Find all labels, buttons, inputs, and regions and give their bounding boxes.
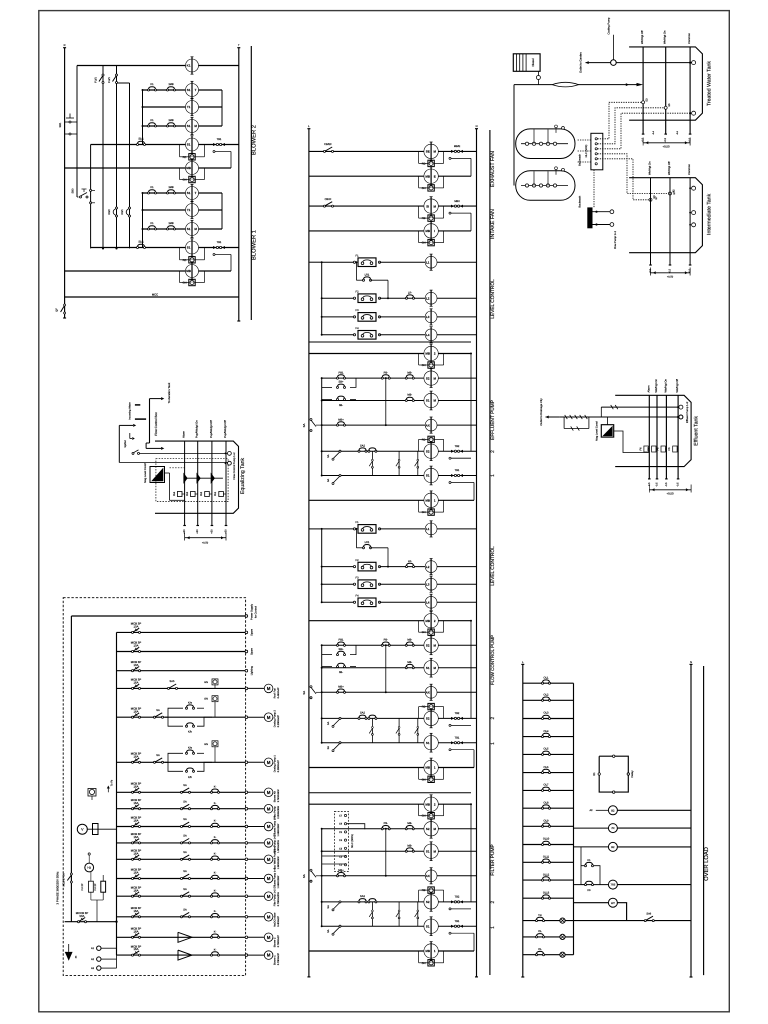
svg-text:S1: S1 xyxy=(426,924,430,928)
svg-text:TB1: TB1 xyxy=(455,920,460,923)
svg-text:SA: SA xyxy=(302,691,306,695)
svg-text:FU 2P: FU 2P xyxy=(81,883,84,890)
svg-text:Alr: Alr xyxy=(589,809,592,812)
svg-text:S1: S1 xyxy=(426,666,430,670)
svg-text:GN: GN xyxy=(183,179,187,182)
svg-text:1: 1 xyxy=(490,926,496,929)
svg-text:2: 2 xyxy=(490,717,496,720)
svg-text:LR-: LR- xyxy=(408,291,412,294)
svg-text:Cooling Pump: Cooling Pump xyxy=(608,17,611,34)
svg-text:Intermediate Tank: Intermediate Tank xyxy=(706,193,712,235)
svg-text:K/a: K/a xyxy=(188,701,192,704)
svg-text:K1: K1 xyxy=(587,859,591,862)
svg-text:for Control: for Control xyxy=(255,606,258,619)
svg-text:E7': E7' xyxy=(673,190,676,194)
svg-text:Pup/Wtr/gd On: Pup/Wtr/gd On xyxy=(196,420,199,438)
svg-text:S2: S2 xyxy=(426,717,430,721)
svg-text:K-: K- xyxy=(214,836,217,839)
svg-text:16A: 16A xyxy=(134,784,139,788)
svg-text:M: M xyxy=(267,876,271,881)
svg-text:+0.50: +0.50 xyxy=(662,145,670,149)
svg-text:SA: SA xyxy=(156,754,160,757)
svg-text:GN: GN xyxy=(422,187,426,190)
svg-text:SA: SA xyxy=(302,874,306,878)
svg-text:1MB: 1MB xyxy=(168,186,174,189)
svg-text:Equalizing Tank: Equalizing Tank xyxy=(240,457,246,494)
svg-text:L3: L3 xyxy=(426,315,430,319)
svg-text:TB1: TB1 xyxy=(217,138,222,141)
svg-text:Sp/5M: Sp/5M xyxy=(124,440,127,447)
svg-text:Spare: Spare xyxy=(251,647,254,654)
svg-text:S1: S1 xyxy=(187,191,191,195)
svg-text:M: M xyxy=(267,790,271,795)
svg-text:Fb1: Fb1 xyxy=(214,491,217,496)
svg-text:10A: 10A xyxy=(134,625,139,629)
svg-text:GN: GN xyxy=(422,962,426,965)
svg-text:OL4: OL4 xyxy=(544,730,549,733)
svg-text:1.5kWx2kW: 1.5kWx2kW xyxy=(277,839,280,852)
svg-text:K1: K1 xyxy=(150,186,154,189)
svg-text:GN: GN xyxy=(183,282,187,285)
svg-text:RD: RD xyxy=(422,162,426,165)
svg-text:LR1: LR1 xyxy=(365,541,370,544)
svg-text:Treated Water Tank: Treated Water Tank xyxy=(706,61,712,106)
svg-text:K/b: K/b xyxy=(188,776,192,779)
svg-text:Common: Common xyxy=(688,164,691,175)
svg-text:0.75kWx2P: 0.75kWx2P xyxy=(277,952,280,965)
svg-text:Spare: Spare xyxy=(251,628,254,635)
svg-text:S1: S1 xyxy=(187,124,191,128)
svg-text:GN: GN xyxy=(422,778,426,781)
svg-text:Alarm: Alarm xyxy=(647,385,650,393)
svg-text:Alarm: Alarm xyxy=(183,430,186,438)
svg-text:MB: MB xyxy=(425,802,430,806)
svg-text:16A: 16A xyxy=(134,947,139,951)
svg-text:Wtr/Hgt Off: Wtr/Hgt Off xyxy=(641,30,644,44)
svg-text:Wtr/Hgt On: Wtr/Hgt On xyxy=(664,30,667,44)
svg-text:M: M xyxy=(267,760,271,765)
svg-text:SA: SA xyxy=(183,870,187,873)
svg-text:SA: SA xyxy=(302,424,306,428)
svg-text:PB-: PB- xyxy=(384,639,388,642)
svg-text:PB-: PB- xyxy=(384,822,388,825)
svg-text:-0.5: -0.5 xyxy=(677,482,680,487)
svg-text:BLOWER 2: BLOWER 2 xyxy=(251,125,258,155)
svg-text:SB0: SB0 xyxy=(72,188,75,193)
svg-text:OVER LOAD: OVER LOAD xyxy=(703,847,710,881)
svg-text:SI: SI xyxy=(426,204,429,208)
svg-text:TB2: TB2 xyxy=(455,896,460,899)
svg-text:S1: S1 xyxy=(426,399,430,403)
svg-text:Flow Control Box: Flow Control Box xyxy=(154,412,158,436)
svg-text:OL8: OL8 xyxy=(544,801,549,804)
svg-text:-0.5: -0.5 xyxy=(656,482,659,487)
svg-text:B2: B2 xyxy=(611,846,615,849)
svg-text:K1: K1 xyxy=(150,119,154,122)
svg-text:E: E xyxy=(75,955,77,959)
svg-text:RD: RD xyxy=(422,706,426,709)
svg-text:K-: K- xyxy=(214,931,217,934)
svg-text:K6: K6 xyxy=(587,889,591,892)
svg-text:RD: RD xyxy=(183,259,187,262)
svg-text:Backwash: Backwash xyxy=(579,153,582,165)
svg-text:RD: RD xyxy=(183,156,187,159)
svg-text:N: N xyxy=(690,661,692,664)
svg-text:Fb4: Fb4 xyxy=(173,491,176,496)
svg-text:MB/I: MB/I xyxy=(454,200,460,203)
svg-text:L4: L4 xyxy=(426,601,430,605)
svg-text:SA: SA xyxy=(327,929,330,933)
svg-text:Wtr/Hgt On: Wtr/Hgt On xyxy=(649,161,652,175)
svg-text:Mag Level Contrl: Mag Level Contrl xyxy=(144,463,147,483)
svg-text:16A: 16A xyxy=(134,754,139,758)
svg-text:CB/IF: CB/IF xyxy=(325,198,332,201)
svg-text:PB1: PB1 xyxy=(339,371,344,374)
svg-text:LEVEL CONTROL: LEVEL CONTROL xyxy=(490,279,496,319)
svg-text:Backwash: Backwash xyxy=(579,195,582,207)
svg-text:PB1: PB1 xyxy=(339,639,344,642)
svg-text:0.25kWx2P: 0.25kWx2P xyxy=(277,760,280,773)
svg-text:16A: 16A xyxy=(134,909,139,913)
svg-text:-0.5: -0.5 xyxy=(664,137,667,142)
svg-text:M: M xyxy=(267,715,271,720)
svg-text:SA: SA xyxy=(183,800,187,803)
svg-text:EXHAUST FAN: EXHAUST FAN xyxy=(490,151,496,187)
svg-text:MB: MB xyxy=(425,499,430,503)
svg-text:50A: 50A xyxy=(80,914,85,918)
svg-text:GN: GN xyxy=(422,511,426,514)
svg-text:Effluent Pump 1+2: Effluent Pump 1+2 xyxy=(686,401,689,423)
svg-text:OL13: OL13 xyxy=(543,891,550,894)
svg-text:SA: SA xyxy=(327,721,330,725)
svg-text:E: E xyxy=(434,174,436,178)
svg-text:0.4kWx2P: 0.4kWx2P xyxy=(277,916,280,927)
svg-text:3.7kWx3kW: 3.7kWx3kW xyxy=(277,789,280,802)
svg-text:7R: 7R xyxy=(611,827,614,830)
svg-text:L1: L1 xyxy=(426,260,430,264)
svg-text:Delay: Delay xyxy=(631,770,634,778)
svg-text:OL5: OL5 xyxy=(544,748,549,751)
svg-text:10A: 10A xyxy=(134,663,139,667)
svg-text:MB: MB xyxy=(425,766,430,770)
svg-text:GN: GN xyxy=(422,242,426,245)
svg-text:Effluent Tank: Effluent Tank xyxy=(694,416,700,446)
svg-text:16A: 16A xyxy=(134,871,139,875)
svg-text:Diesel: Diesel xyxy=(531,58,535,66)
svg-text:SB+: SB+ xyxy=(339,381,344,384)
svg-text:0.25kWx2P: 0.25kWx2P xyxy=(277,715,280,728)
svg-text:Hz: Hz xyxy=(87,866,91,870)
svg-text:T: T xyxy=(195,88,197,92)
svg-text:Outlet to Garden: Outlet to Garden xyxy=(579,52,583,73)
svg-text:NLC (NRS): NLC (NRS) xyxy=(351,834,354,848)
svg-text:M: M xyxy=(267,914,271,919)
svg-text:GN: GN xyxy=(422,631,426,634)
svg-text:RD: RD xyxy=(422,889,426,892)
svg-text:S2: S2 xyxy=(426,644,430,648)
svg-text:SE: SE xyxy=(426,150,430,154)
svg-text:MB/E: MB/E xyxy=(454,145,461,148)
svg-text:2.2kWx3kW: 2.2kWx3kW xyxy=(277,805,280,818)
svg-text:SA: SA xyxy=(183,835,187,838)
svg-text:MB-: MB- xyxy=(407,822,412,825)
svg-text:OL12: OL12 xyxy=(543,873,550,876)
svg-text:LEVEL CONTROL: LEVEL CONTROL xyxy=(490,546,496,586)
svg-text:N: N xyxy=(476,125,478,128)
svg-text:M: M xyxy=(267,824,271,829)
svg-text:AX: AX xyxy=(426,423,430,427)
svg-text:SA: SA xyxy=(156,709,160,712)
svg-text:2: 2 xyxy=(490,450,496,453)
svg-text:1MB: 1MB xyxy=(168,222,174,225)
svg-text:S1: S1 xyxy=(426,741,430,745)
svg-text:Incoming Water: Incoming Water xyxy=(129,402,132,420)
svg-text:K1: K1 xyxy=(150,83,154,86)
svg-text:SA6: SA6 xyxy=(646,912,651,915)
svg-text:SA2: SA2 xyxy=(360,444,365,447)
svg-text:L2: L2 xyxy=(426,565,430,569)
svg-text:0.75kWx2kW: 0.75kWx2kW xyxy=(277,891,280,906)
svg-text:MB-: MB- xyxy=(407,661,412,664)
svg-text:K/b: K/b xyxy=(188,731,192,734)
svg-text:1.5kWx2kW: 1.5kWx2kW xyxy=(277,856,280,869)
svg-text:OL: OL xyxy=(538,948,542,951)
svg-text:7R5: 7R5 xyxy=(611,884,616,887)
svg-text:K0/2: K0/2 xyxy=(108,209,111,215)
svg-text:TB2: TB2 xyxy=(455,445,460,448)
svg-text:SA: SA xyxy=(327,479,330,483)
svg-text:K-: K- xyxy=(214,872,217,875)
svg-text:B2: B2 xyxy=(611,809,615,812)
svg-text:L3: L3 xyxy=(426,582,430,586)
svg-text:MB+: MB+ xyxy=(338,686,344,689)
svg-text:GN: GN xyxy=(422,364,426,367)
svg-text:K1: K1 xyxy=(187,64,191,68)
svg-text:BLOWER 1: BLOWER 1 xyxy=(251,230,258,260)
svg-text:SA5: SA5 xyxy=(170,680,175,683)
svg-text:K-: K- xyxy=(214,802,217,805)
svg-text:S1: S1 xyxy=(187,143,191,147)
svg-text:Power Supply: Power Supply xyxy=(251,603,254,620)
svg-text:OL: OL xyxy=(538,930,542,933)
svg-text:OL2: OL2 xyxy=(544,694,549,697)
svg-text:+50: +50 xyxy=(196,529,199,534)
svg-text:K-: K- xyxy=(214,910,217,913)
svg-text:T1: T1 xyxy=(187,208,191,212)
svg-text:2: 2 xyxy=(490,900,496,903)
svg-text:L4: L4 xyxy=(426,333,430,337)
svg-text:INTAKE FAN: INTAKE FAN xyxy=(490,209,496,239)
svg-text:FU 2P: FU 2P xyxy=(94,883,97,890)
svg-text:AX: AX xyxy=(426,691,430,695)
svg-text:SB1: SB1 xyxy=(59,122,62,127)
svg-text:RD: RD xyxy=(422,217,426,220)
svg-text:S1: S1 xyxy=(426,474,430,478)
svg-text:S2: S2 xyxy=(426,376,430,380)
svg-text:W7: W7 xyxy=(611,902,615,905)
svg-text:16A: 16A xyxy=(134,801,139,805)
svg-text:MB+: MB+ xyxy=(338,418,344,421)
svg-text:T: T xyxy=(195,191,197,195)
svg-text:MB-: MB- xyxy=(407,394,412,397)
svg-text:+0.50: +0.50 xyxy=(667,276,674,279)
svg-text:0.75kWx2P: 0.75kWx2P xyxy=(277,935,280,948)
svg-text:SA: SA xyxy=(183,784,187,787)
svg-text:1: 1 xyxy=(490,742,496,745)
svg-text:K/a: K/a xyxy=(188,747,192,750)
svg-text:M: M xyxy=(267,806,271,811)
svg-text:S1: S1 xyxy=(187,88,191,92)
svg-text:M: M xyxy=(267,953,271,958)
svg-text:T1: T1 xyxy=(187,105,191,109)
svg-text:M: M xyxy=(267,935,271,940)
svg-text:SB+: SB+ xyxy=(339,648,344,651)
svg-text:OL9: OL9 xyxy=(544,820,549,823)
svg-text:FLOW CONTROL PUMP: FLOW CONTROL PUMP xyxy=(490,635,495,685)
svg-text:Lighting: Lighting xyxy=(251,666,254,676)
svg-text:M: M xyxy=(267,857,271,862)
svg-text:Flow Pump 1+2: Flow Pump 1+2 xyxy=(614,230,617,249)
svg-text:+50: +50 xyxy=(210,529,213,534)
svg-text:TB2: TB2 xyxy=(455,712,460,715)
svg-text:TB1: TB1 xyxy=(217,241,222,244)
svg-text:SA: SA xyxy=(183,909,187,912)
svg-text:SA: SA xyxy=(183,888,187,891)
svg-text:Fb3: Fb3 xyxy=(186,491,189,496)
svg-text:+0.50: +0.50 xyxy=(202,542,209,545)
svg-text:10A: 10A xyxy=(134,644,139,648)
svg-text:MB-: MB- xyxy=(407,844,412,847)
svg-text:CB/EF: CB/EF xyxy=(324,143,332,146)
svg-text:S2: S2 xyxy=(426,827,430,831)
svg-text:RD: RD xyxy=(422,438,426,441)
svg-text:16A: 16A xyxy=(134,835,139,839)
svg-text:SA2: SA2 xyxy=(360,712,365,715)
svg-text:S1: S1 xyxy=(187,227,191,231)
svg-text:OL10: OL10 xyxy=(543,838,550,841)
svg-text:MB-: MB- xyxy=(407,639,412,642)
svg-text:SA: SA xyxy=(183,851,187,854)
svg-text:Wtr/Hgt On: Wtr/Hgt On xyxy=(655,379,658,393)
svg-text:L2: L2 xyxy=(426,296,430,300)
svg-text:SA: SA xyxy=(327,454,330,458)
svg-text:16A: 16A xyxy=(134,929,139,933)
svg-text:GN: GN xyxy=(204,698,208,701)
svg-text:LR-: LR- xyxy=(408,560,412,563)
svg-text:LR1: LR1 xyxy=(365,273,370,276)
svg-text:3 PHASE 380/220V 50Hz: 3 PHASE 380/220V 50Hz xyxy=(56,871,60,904)
svg-text:K-: K- xyxy=(214,948,217,951)
svg-text:K1: K1 xyxy=(150,222,154,225)
svg-text:TB1: TB1 xyxy=(455,469,460,472)
svg-text:FILTER PUMP: FILTER PUMP xyxy=(490,844,496,875)
svg-text:Wtr/Hgt On: Wtr/Hgt On xyxy=(664,379,667,393)
svg-text:OL11: OL11 xyxy=(543,856,550,859)
svg-text:K0/1: K0/1 xyxy=(121,209,124,215)
svg-text:L1: L1 xyxy=(426,527,430,531)
svg-text:MB-: MB- xyxy=(407,371,412,374)
svg-text:OL3: OL3 xyxy=(544,712,549,715)
svg-text:S1/1: S1/1 xyxy=(138,241,144,244)
svg-text:TB1: TB1 xyxy=(455,736,460,739)
svg-text:SB-: SB- xyxy=(339,404,343,407)
svg-text:16A: 16A xyxy=(134,709,139,713)
svg-text:1MB: 1MB xyxy=(168,119,174,122)
svg-text:M: M xyxy=(267,841,271,846)
svg-text:MB: MB xyxy=(425,619,430,623)
svg-text:M: M xyxy=(267,686,271,691)
svg-text:MB: MB xyxy=(425,949,430,953)
svg-text:-0.5: -0.5 xyxy=(665,482,668,487)
svg-text:To Aeration Tank: To Aeration Tank xyxy=(167,382,171,403)
svg-text:S2: S2 xyxy=(426,900,430,904)
svg-text:Mag Level Contrl: Mag Level Contrl xyxy=(596,421,599,441)
svg-text:16A: 16A xyxy=(134,681,139,685)
svg-text:Fb2: Fb2 xyxy=(200,491,203,496)
svg-text:OL1: OL1 xyxy=(544,676,549,679)
svg-text:R: R xyxy=(64,44,66,47)
svg-text:EFFLUENT PUMP: EFFLUENT PUMP xyxy=(490,400,496,440)
svg-text:MB: MB xyxy=(425,352,430,356)
svg-text:S1: S1 xyxy=(426,849,430,853)
svg-text:M: M xyxy=(267,894,271,899)
svg-text:SA: SA xyxy=(327,905,330,909)
svg-text:K-: K- xyxy=(214,786,217,789)
svg-text:SA: SA xyxy=(183,818,187,821)
svg-text:GN: GN xyxy=(204,743,208,746)
svg-text:16A: 16A xyxy=(134,888,139,892)
svg-text:SA: SA xyxy=(327,746,330,750)
svg-text:OL6: OL6 xyxy=(544,766,549,769)
svg-text:FU/1: FU/1 xyxy=(95,77,98,83)
svg-text:SB-: SB- xyxy=(339,671,343,674)
svg-text:1: 1 xyxy=(490,474,496,477)
svg-text:MCC: MCC xyxy=(152,293,158,297)
svg-text:MB: MB xyxy=(425,229,430,233)
svg-text:Pup/Wtr/gd Off: Pup/Wtr/gd Off xyxy=(224,420,227,438)
svg-text:Tm: Tm xyxy=(538,914,542,917)
svg-text:Pup/Wtr/gd Off: Pup/Wtr/gd Off xyxy=(210,420,213,438)
svg-text:GN: GN xyxy=(204,681,208,684)
svg-text:S2: S2 xyxy=(426,449,430,453)
svg-text:MCB 3P 5A: MCB 3P 5A xyxy=(63,873,66,886)
svg-text:FU/1: FU/1 xyxy=(108,77,111,83)
svg-text:+0.50: +0.50 xyxy=(666,492,674,496)
svg-text:Outlet to Drainage City: Outlet to Drainage City xyxy=(540,398,543,426)
svg-text:1.5kWx2kW: 1.5kWx2kW xyxy=(277,823,280,836)
svg-text:S1/1: S1/1 xyxy=(138,138,144,141)
svg-text:0.4kWx4P: 0.4kWx4P xyxy=(277,687,280,698)
svg-text:GN: GN xyxy=(422,815,426,818)
svg-text:S1: S1 xyxy=(187,246,191,250)
svg-text:1MB: 1MB xyxy=(168,83,174,86)
svg-text:PB-: PB- xyxy=(384,371,388,374)
svg-text:1.5kWx2kW: 1.5kWx2kW xyxy=(277,875,280,888)
svg-text:16A: 16A xyxy=(134,819,139,823)
svg-text:Flow Control Pump 1+2: Flow Control Pump 1+2 xyxy=(233,452,236,480)
svg-text:QF: QF xyxy=(56,308,59,312)
svg-text:16A: 16A xyxy=(134,851,139,855)
svg-text:To Fb: To Fb xyxy=(111,779,114,786)
svg-text:OL7: OL7 xyxy=(544,784,549,787)
svg-text:Common: Common xyxy=(688,33,691,44)
svg-text:Wtr/Hgt Off: Wtr/Hgt Off xyxy=(668,161,671,175)
svg-text:Wtr/Hgt Off: Wtr/Hgt Off xyxy=(676,379,679,393)
svg-text:MB: MB xyxy=(425,174,430,178)
svg-text:AX: AX xyxy=(426,874,430,878)
svg-text:K-: K- xyxy=(214,889,217,892)
svg-text:K-: K- xyxy=(214,853,217,856)
